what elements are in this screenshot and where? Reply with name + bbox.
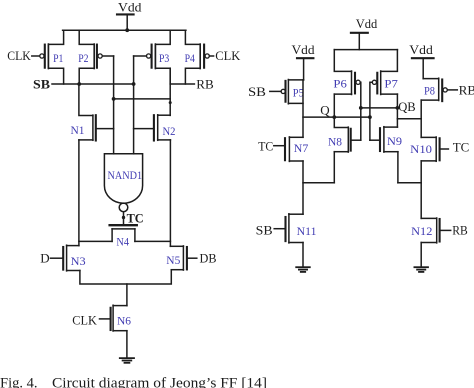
wire RB column (P2 gate / N1 gate / NAND input) [113, 56, 115, 154]
svg-text:Vdd: Vdd [292, 42, 316, 57]
wire Q net [303, 116, 370, 118]
wire SB column (P3 gate / N2 gate / NAND input) [133, 56, 135, 154]
wire SB net [52, 83, 134, 85]
wire N1 source to pass-gate body [78, 140, 80, 246]
svg-text:N7: N7 [294, 143, 309, 155]
power Vdd (center, P6/P7) [351, 16, 378, 49]
wire N11 source to ground [302, 243, 304, 267]
svg-text:Vdd: Vdd [118, 0, 142, 15]
svg-text:N11: N11 [297, 226, 317, 238]
op-amp NAND1 body [104, 154, 142, 212]
junction RB link [169, 101, 172, 104]
svg-text:Q: Q [320, 103, 330, 118]
ground (N11) [296, 267, 310, 272]
transistor N2 [134, 115, 176, 141]
junction QB / P6 gate [359, 106, 363, 110]
svg-text:P8: P8 [424, 86, 435, 98]
wire QB net [361, 107, 398, 109]
wire N9/N10 source join [398, 182, 421, 184]
svg-text:N12: N12 [411, 226, 433, 238]
wire body tap to N6 [126, 284, 128, 306]
wire N7/N8 source column [302, 161, 304, 214]
transistor P1 [40, 30, 64, 84]
svg-text:SB: SB [256, 222, 273, 237]
transistor P4 [185, 30, 210, 84]
svg-text:P4: P4 [185, 53, 196, 65]
svg-text:RB: RB [459, 83, 474, 98]
transistor N1 [71, 84, 114, 141]
transistor N7 [274, 137, 309, 162]
svg-text:SB: SB [248, 84, 266, 99]
wire N10 source column [420, 161, 422, 219]
transistor P6 [333, 50, 360, 118]
wire N7/N8 source join [303, 182, 334, 184]
transistor N10 [410, 137, 448, 161]
transistor N12 [411, 218, 451, 243]
svg-text:N8: N8 [328, 136, 342, 148]
transistor N3 [51, 245, 86, 271]
power Vdd (left circuit) [117, 0, 142, 30]
wire N6 source to ground [126, 331, 128, 358]
junction SB / N1 drain [77, 82, 81, 86]
svg-text:NAND1: NAND1 [108, 170, 143, 182]
junction QB / P7 drain [396, 106, 400, 110]
transistor N8 [328, 117, 361, 183]
svg-text:SB: SB [33, 76, 50, 91]
transistor N5 [166, 246, 197, 270]
svg-text:TC: TC [453, 139, 470, 154]
wire RB stub [170, 83, 194, 85]
svg-text:CLK: CLK [72, 313, 97, 328]
svg-text:TC: TC [258, 138, 273, 153]
wire P8 gate to RB [447, 89, 457, 91]
junction SB / P3 gate column [132, 82, 136, 86]
svg-text:P3: P3 [159, 53, 170, 65]
transistor N4 [110, 225, 137, 248]
svg-text:N5: N5 [166, 255, 180, 267]
svg-text:N2: N2 [163, 126, 176, 138]
wire CLK to P1 gate [32, 55, 40, 57]
svg-text:Vdd: Vdd [409, 42, 433, 57]
transistor P3 [147, 30, 171, 84]
wire P6/P7 rail [334, 49, 397, 51]
wire P7 gate column (Q) [370, 82, 372, 140]
wire N12 source to ground [420, 243, 422, 267]
svg-text:Circuit diagram of Jeong’s FF: Circuit diagram of Jeong’s FF [14] [52, 376, 267, 388]
wire QB to P8/N10 column [397, 118, 421, 120]
transistor N9 [370, 127, 402, 152]
wire P4 gate to CLK [209, 55, 213, 57]
wire N9/N10 source column [397, 152, 399, 183]
svg-text:N10: N10 [410, 144, 432, 156]
transistor P5 [281, 80, 304, 104]
junction RB column [112, 97, 116, 101]
svg-text:P1: P1 [53, 53, 64, 65]
svg-text:Vdd: Vdd [356, 16, 378, 31]
wire P2 gate to RB column [102, 55, 113, 57]
wire RB to N2 drain [169, 68, 171, 115]
junction TC [122, 216, 125, 219]
wire pass-gate body bottom edge [80, 270, 171, 284]
wire SB to P5 gate [270, 90, 281, 92]
svg-text:DB: DB [200, 251, 217, 266]
svg-text:QB: QB [398, 99, 416, 114]
power Vdd (P5) [292, 42, 316, 80]
transistor P8 [421, 78, 447, 101]
svg-text:N6: N6 [117, 315, 131, 327]
wire Vdd rail (left) [63, 29, 186, 31]
svg-text:N4: N4 [116, 236, 129, 248]
transistor N6 [100, 305, 132, 331]
svg-text:N1: N1 [71, 125, 85, 137]
power Vdd (P8) [409, 42, 433, 79]
wire P3 gate to SB column [134, 55, 147, 57]
svg-text:D: D [40, 251, 49, 266]
transistor P7 [372, 50, 398, 128]
svg-text:TC: TC [127, 210, 144, 225]
wire pass-gate body top edge [79, 240, 112, 242]
svg-text:RB: RB [452, 222, 468, 237]
wire RB cross link [114, 98, 171, 100]
transistor N11 [274, 214, 317, 243]
svg-text:Fig. 4.: Fig. 4. [0, 376, 38, 388]
wire P6 gate column (QB) [359, 82, 362, 140]
svg-text:N9: N9 [387, 136, 402, 148]
wire NAND1 output TC [123, 212, 125, 224]
svg-text:N3: N3 [71, 256, 86, 268]
svg-text:P2: P2 [78, 53, 89, 65]
wire P5 drain / Q / N7 drain column [302, 80, 304, 137]
svg-text:P7: P7 [384, 79, 398, 91]
wire P8 drain / QB / N10 drain column [420, 100, 422, 137]
ground (left circuit) [120, 358, 134, 363]
junction Q / N8 drain [332, 115, 336, 119]
svg-text:CLK: CLK [215, 48, 241, 63]
transistor P2 [78, 30, 102, 84]
svg-text:CLK: CLK [7, 48, 31, 63]
junction Q / P7 gate [368, 115, 372, 119]
ground (N12) [414, 267, 428, 272]
junction Vdd tap [125, 28, 129, 32]
wire N2 source to pass-gate body [169, 140, 171, 246]
svg-text:P6: P6 [333, 79, 347, 91]
svg-text:RB: RB [196, 76, 214, 91]
